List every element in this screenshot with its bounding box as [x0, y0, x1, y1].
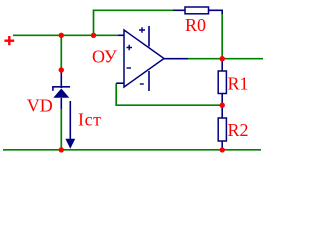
svg-text:Iст: Iст	[78, 110, 102, 130]
svg-text:R1: R1	[228, 74, 249, 94]
svg-text:R0: R0	[185, 15, 206, 35]
svg-text:R2: R2	[228, 120, 249, 140]
svg-text:VD: VD	[27, 96, 53, 116]
svg-text:ОУ: ОУ	[92, 47, 117, 67]
